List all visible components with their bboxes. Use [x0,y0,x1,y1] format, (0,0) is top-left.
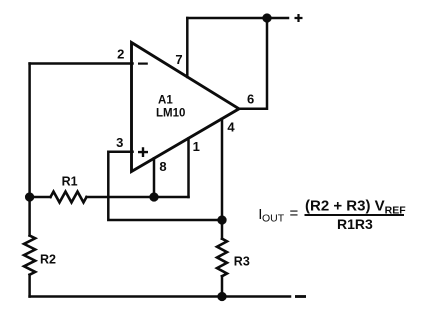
junction dot R1 left node [25,192,34,201]
svg-text:1: 1 [193,139,200,154]
wire pin4 rail [221,119,224,239]
terminal V- minus sign [295,295,306,298]
op-amp A1 triangle body [132,43,240,172]
formula fraction bar [305,214,405,216]
svg-text:R1: R1 [62,174,78,188]
svg-text:OUT: OUT [262,213,285,225]
svg-text:R2: R2 [40,253,56,267]
wire R3 bottom segment [221,276,224,296]
svg-text:LM10: LM10 [156,108,185,120]
resistor R3 [217,239,227,277]
wire pin1 [187,139,190,198]
op-amp inverting input minus sign [138,62,148,64]
resistor R1 [51,192,87,203]
wire bottom rail [30,295,290,298]
junction dot top output node [262,13,271,22]
svg-text:2: 2 [117,46,124,61]
wire pin3 feedback [108,152,222,220]
svg-text:7: 7 [175,52,182,67]
wire R1 right segment to pin1 [87,196,189,199]
wire pin2 inverting input [30,62,133,65]
wire left rail upper [28,64,31,236]
svg-text:6: 6 [247,92,254,107]
svg-text:R3: R3 [234,255,250,269]
svg-text:A1: A1 [158,95,173,107]
op-amp non-inverting input plus sign [138,147,148,157]
svg-text:4: 4 [227,120,235,135]
junction dot pin8 node [149,192,158,201]
wire R1 left segment [30,196,51,199]
wire pin8 [153,158,156,197]
wire pin7 [186,18,189,77]
junction dot R3 bottom node [217,292,226,301]
svg-text:R1R3: R1R3 [337,216,373,232]
junction dot pin3/pin4 node [217,215,226,224]
svg-text:=: = [290,205,299,222]
svg-text:3: 3 [116,135,123,150]
resistor R2 [24,236,35,275]
terminal V+ plus sign [295,14,303,22]
wire top rail [187,17,288,20]
svg-text:8: 8 [159,159,166,174]
wire pin6 output [239,18,267,109]
wire left rail lower [28,275,31,297]
